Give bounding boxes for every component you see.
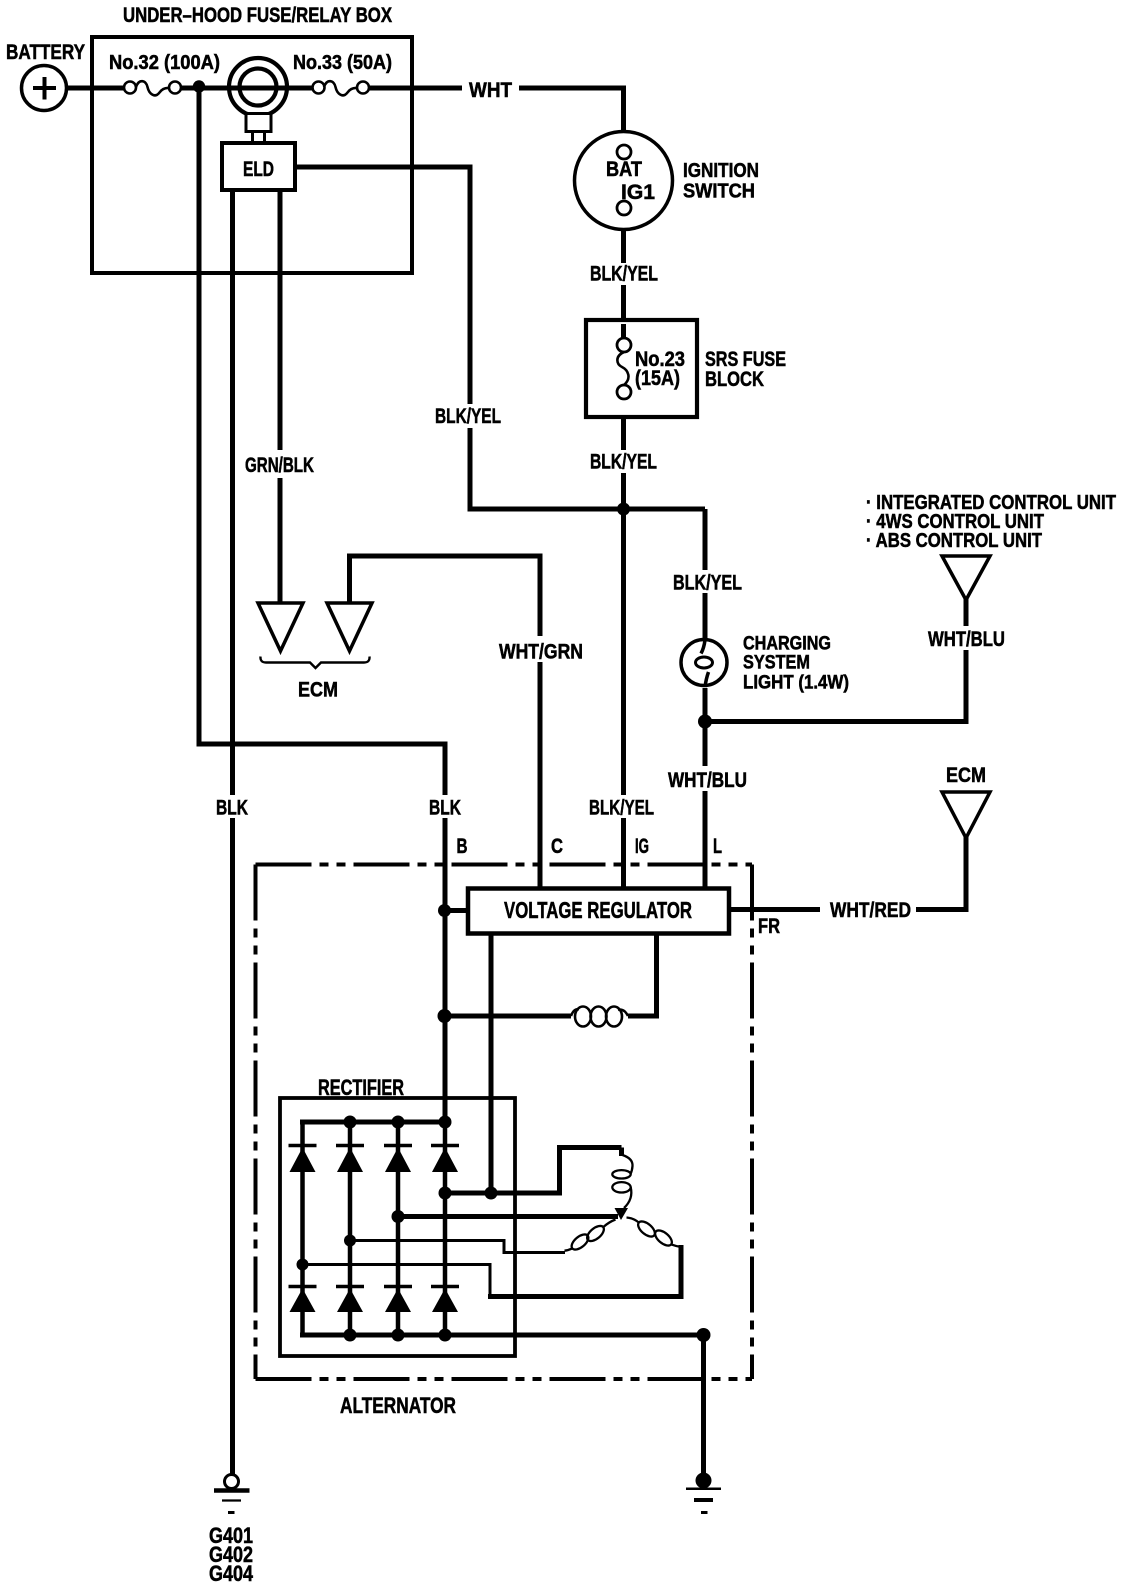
svg-text:BLK/YEL: BLK/YEL xyxy=(590,263,658,286)
svg-text:BLOCK: BLOCK xyxy=(705,368,764,391)
svg-text:BLK/YEL: BLK/YEL xyxy=(589,797,654,820)
svg-text:CHARGING: CHARGING xyxy=(743,634,831,655)
svg-text:WHT/RED: WHT/RED xyxy=(830,899,911,922)
svg-text:WHT/GRN: WHT/GRN xyxy=(499,641,583,664)
svg-text:BATTERY: BATTERY xyxy=(6,41,85,64)
svg-text:FR: FR xyxy=(758,915,780,938)
svg-text:No.33 (50A): No.33 (50A) xyxy=(293,52,392,74)
svg-text:G404: G404 xyxy=(209,1561,254,1586)
svg-text:ECM: ECM xyxy=(946,764,986,787)
svg-text:BAT: BAT xyxy=(606,158,642,181)
svg-text:BLK: BLK xyxy=(216,797,248,820)
svg-text:· ABS CONTROL UNIT: · ABS CONTROL UNIT xyxy=(866,530,1042,552)
svg-text:ALTERNATOR: ALTERNATOR xyxy=(340,1393,456,1418)
svg-text:BLK/YEL: BLK/YEL xyxy=(435,405,501,428)
svg-text:ELD: ELD xyxy=(243,158,274,181)
svg-text:C: C xyxy=(551,835,563,858)
svg-text:LIGHT (1.4W): LIGHT (1.4W) xyxy=(743,673,849,694)
svg-text:WHT/BLU: WHT/BLU xyxy=(668,769,747,792)
svg-text:No.32 (100A): No.32 (100A) xyxy=(109,52,220,74)
svg-text:IG1: IG1 xyxy=(621,181,655,204)
svg-text:GRN/BLK: GRN/BLK xyxy=(245,454,314,477)
svg-text:WHT: WHT xyxy=(469,79,512,102)
svg-text:B: B xyxy=(457,835,468,858)
svg-text:SWITCH: SWITCH xyxy=(683,181,755,203)
svg-text:IG: IG xyxy=(635,835,649,858)
svg-text:L: L xyxy=(713,835,722,858)
svg-text:ECM: ECM xyxy=(298,679,338,702)
svg-text:BLK/YEL: BLK/YEL xyxy=(673,572,742,595)
svg-text:BLK: BLK xyxy=(429,797,461,820)
svg-text:BLK/YEL: BLK/YEL xyxy=(590,451,657,474)
svg-text:(15A): (15A) xyxy=(635,367,680,390)
svg-text:WHT/BLU: WHT/BLU xyxy=(928,628,1005,651)
svg-text:SYSTEM: SYSTEM xyxy=(743,653,810,674)
svg-text:IGNITION: IGNITION xyxy=(683,160,759,182)
svg-text:UNDER–HOOD FUSE/RELAY BOX: UNDER–HOOD FUSE/RELAY BOX xyxy=(123,4,392,27)
svg-text:RECTIFIER: RECTIFIER xyxy=(318,1075,404,1100)
svg-text:VOLTAGE REGULATOR: VOLTAGE REGULATOR xyxy=(504,897,692,923)
